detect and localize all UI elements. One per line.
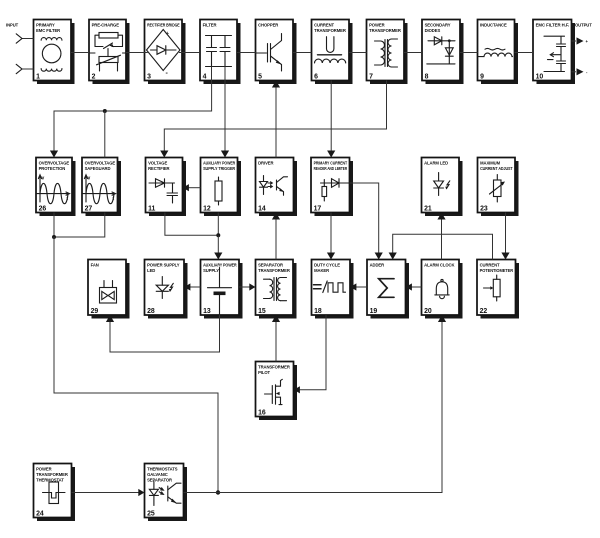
block 1: primary EMC filter xyxy=(34,20,75,85)
svg-text:OVERVOLTAGE: OVERVOLTAGE xyxy=(85,161,116,166)
junction dot at (54,237) xyxy=(52,235,56,239)
arrow into 19 top (right) xyxy=(389,253,397,260)
svg-text:PRIMARY CURRENT: PRIMARY CURRENT xyxy=(314,161,348,166)
svg-text:EMC FILTER: EMC FILTER xyxy=(36,28,60,33)
svg-text:TRANSFORMER: TRANSFORMER xyxy=(314,28,346,33)
block 3: rectifier bridge xyxy=(145,20,186,85)
svg-text:16: 16 xyxy=(258,409,266,416)
arrow into 20 bottom xyxy=(438,315,446,322)
svg-text:1: 1 xyxy=(36,73,40,80)
wire 4 to 12 (down) xyxy=(224,81,226,152)
arrow into 11 top xyxy=(160,151,168,158)
svg-text:12: 12 xyxy=(203,205,211,212)
wire junction into 13 top xyxy=(217,235,219,253)
svg-text:20: 20 xyxy=(424,308,432,315)
block 7: power transformer xyxy=(367,20,408,85)
block 13: auxiliary power supply xyxy=(201,260,243,319)
svg-text:TRANSFORMER: TRANSFORMER xyxy=(36,472,68,477)
svg-text:CHOPPER: CHOPPER xyxy=(258,23,278,28)
wire 24 to 25 (right) xyxy=(72,492,140,494)
arrow into 15 left side xyxy=(249,283,255,290)
svg-text:PILOT: PILOT xyxy=(258,370,270,375)
wire 14 to 5 (up) xyxy=(275,87,277,158)
svg-text:CURRENT ADJUST: CURRENT ADJUST xyxy=(480,166,513,171)
svg-text:26: 26 xyxy=(39,205,47,212)
svg-text:SUPPLY TRIGGER: SUPPLY TRIGGER xyxy=(203,166,235,171)
wire 20 top to 21 bottom xyxy=(441,219,443,260)
svg-text:24: 24 xyxy=(36,510,44,517)
svg-text:READER AND LIMITER: READER AND LIMITER xyxy=(314,166,348,171)
svg-text:7: 7 xyxy=(369,73,373,80)
wire 27 bottom down-left xyxy=(54,213,105,238)
arrow into 11 right side xyxy=(183,184,189,191)
block 11: voltage rectifier xyxy=(146,158,187,217)
svg-text:ALARM CLOCK: ALARM CLOCK xyxy=(424,263,454,268)
svg-text:11: 11 xyxy=(148,205,155,212)
block 24: power transformer thermostat xyxy=(34,464,76,522)
arrow into 28 right side xyxy=(184,283,190,290)
wire 12 to 11 (left) xyxy=(188,187,201,189)
block 26: overvoltage protection xyxy=(36,158,76,217)
block 6: current transformer xyxy=(312,20,353,85)
arrow into 22 top xyxy=(501,253,509,260)
block 25: thermostats galvanic separator xyxy=(145,464,188,522)
arrow into 19 top (left) xyxy=(375,253,383,260)
wire 18 bottom to 16 (down, left) xyxy=(299,315,326,390)
svg-text:TRANSFORMER: TRANSFORMER xyxy=(369,28,401,33)
wire 17 bottom to 18 top xyxy=(330,213,332,254)
block 18: duty cycle maker xyxy=(312,260,354,319)
svg-text:RECTIFIER BRIDGE: RECTIFIER BRIDGE xyxy=(147,23,180,28)
svg-text:2: 2 xyxy=(92,73,96,80)
wire 15 top to 14 bottom xyxy=(275,219,277,260)
svg-text:6: 6 xyxy=(314,73,318,80)
svg-text:ADDER: ADDER xyxy=(370,263,385,268)
svg-text:13: 13 xyxy=(203,308,211,315)
svg-text:5: 5 xyxy=(258,73,262,80)
block 14: driver xyxy=(256,158,298,217)
junction dot at (105,111) xyxy=(103,109,107,113)
arrow into 5 bottom xyxy=(272,81,280,88)
svg-text:CURRENT: CURRENT xyxy=(480,263,500,268)
arrow into 17 top xyxy=(327,151,335,158)
svg-text:SAFEGUARD: SAFEGUARD xyxy=(85,166,111,171)
svg-text:OUTPUT: OUTPUT xyxy=(575,23,592,28)
input terminal + line (lower) xyxy=(16,64,33,73)
svg-text:THERMOSTATS: THERMOSTATS xyxy=(147,467,178,472)
block 17: primary current reader and limiter xyxy=(311,158,353,217)
svg-text:FAN: FAN xyxy=(91,263,99,268)
svg-text:INPUT: INPUT xyxy=(6,23,19,28)
arrow into 18 right side xyxy=(350,283,356,290)
svg-text:EMC FILTER H.F.: EMC FILTER H.F. xyxy=(536,23,570,28)
svg-text:15: 15 xyxy=(258,308,266,315)
svg-text:POWER: POWER xyxy=(36,467,51,472)
block 22: current potentiometer xyxy=(477,260,519,319)
wire 20 to 19 (left) xyxy=(411,286,422,288)
wire bus 6-7 xyxy=(349,52,367,54)
svg-text:INDUCTANCE: INDUCTANCE xyxy=(480,23,507,28)
svg-text:SEPARATOR: SEPARATOR xyxy=(147,477,172,482)
wire bus 7-8 xyxy=(404,52,422,54)
svg-text:+: + xyxy=(166,32,170,38)
svg-text:27: 27 xyxy=(85,205,93,212)
wire 23 bottom to 22 top xyxy=(505,213,507,254)
wire 25 to 20 (right, up) xyxy=(184,322,443,493)
svg-text:AUXILIARY POWER: AUXILIARY POWER xyxy=(203,263,237,268)
block 20: alarm clock xyxy=(422,260,463,319)
svg-text:PRE-CHARGE: PRE-CHARGE xyxy=(92,23,120,28)
block 15: separator transformer xyxy=(256,260,297,319)
svg-text:21: 21 xyxy=(424,205,432,212)
svg-text:AUXILIARY POWER: AUXILIARY POWER xyxy=(203,161,235,166)
svg-text:25: 25 xyxy=(147,510,155,517)
svg-text:TRANSFORMER: TRANSFORMER xyxy=(258,268,290,273)
svg-text:RECTIFIER: RECTIFIER xyxy=(148,166,169,171)
arrow into 12 top xyxy=(221,151,229,158)
svg-text:POTENTIOMETER: POTENTIOMETER xyxy=(480,268,514,273)
wire junction to 27 top xyxy=(104,111,106,158)
block 12: auxiliary power supply trigger xyxy=(201,158,242,217)
svg-text:ALARM LED: ALARM LED xyxy=(424,161,448,166)
block 8: secondary diodes xyxy=(422,20,464,85)
wire 6 to 17 (down) xyxy=(330,81,332,152)
svg-text:SEPARATOR: SEPARATOR xyxy=(258,263,283,268)
svg-text:19: 19 xyxy=(370,308,378,315)
svg-text:TRANSFORMER: TRANSFORMER xyxy=(258,365,290,370)
wire bus 9-10 xyxy=(515,52,534,54)
block 29: fan xyxy=(88,260,130,319)
arrow into 21 bottom xyxy=(437,213,445,220)
svg-text:PROTECTION: PROTECTION xyxy=(39,166,66,171)
svg-text:SUPPLY: SUPPLY xyxy=(203,268,219,273)
svg-text:8: 8 xyxy=(425,73,429,80)
wire bus 1-2 xyxy=(71,52,89,54)
block 10: EMC filter H.F. xyxy=(533,20,575,85)
svg-text:14: 14 xyxy=(258,205,266,212)
svg-text:LED: LED xyxy=(147,268,155,273)
output - terminal xyxy=(572,68,589,75)
svg-text:9: 9 xyxy=(480,73,484,80)
wire 4 to 26/27 (down, left, down) xyxy=(54,81,212,152)
svg-text:MAXIMUM: MAXIMUM xyxy=(480,161,501,166)
svg-text:17: 17 xyxy=(314,205,322,212)
block 28: power supply LED xyxy=(145,260,188,319)
arrow into 19 right side xyxy=(406,283,412,290)
junction dot at (218,492.5) xyxy=(216,490,220,494)
svg-text:10: 10 xyxy=(536,73,544,80)
arrow into 25 left side xyxy=(138,489,144,496)
svg-text:DRIVER: DRIVER xyxy=(258,161,273,166)
wire bus 8-9 xyxy=(460,52,478,54)
block 9: inductance xyxy=(478,20,519,85)
block 21: alarm LED xyxy=(422,158,463,217)
svg-text:3: 3 xyxy=(147,73,151,80)
output + terminal xyxy=(572,37,589,44)
wire bus 4-5 xyxy=(237,52,256,54)
wire 13 to 15 (right) xyxy=(239,286,250,288)
block 4: filter xyxy=(200,20,241,85)
junction dot at (218.3,235.3) xyxy=(216,233,220,237)
wire 22 top to 19 (up, left, down) xyxy=(393,234,493,259)
block 23: maximum current adjust xyxy=(478,158,519,217)
arrow into 18 top xyxy=(327,253,335,260)
wire 16 top to 15 bottom xyxy=(275,322,277,362)
svg-text:FILTER: FILTER xyxy=(203,23,217,28)
svg-text:CURRENT: CURRENT xyxy=(314,23,334,28)
arrow into 13 top xyxy=(214,253,222,260)
wire 26 bottom down xyxy=(53,213,55,238)
svg-text:PRIMARY: PRIMARY xyxy=(36,23,55,28)
svg-text:v: v xyxy=(42,176,45,182)
svg-text:DUTY CYCLE: DUTY CYCLE xyxy=(314,263,340,268)
wire bus 5-6 xyxy=(293,52,312,54)
svg-text:v: v xyxy=(88,176,91,182)
svg-text:POWER: POWER xyxy=(369,23,384,28)
svg-text:23: 23 xyxy=(480,205,488,212)
svg-text:SECONDARY: SECONDARY xyxy=(425,23,451,28)
block 5: chopper xyxy=(256,20,297,85)
svg-text:OVERVOLTAGE: OVERVOLTAGE xyxy=(39,161,70,166)
svg-text:22: 22 xyxy=(480,308,488,315)
svg-text:18: 18 xyxy=(314,308,322,315)
svg-text:28: 28 xyxy=(147,308,155,315)
arrow into 14 bottom xyxy=(272,213,280,220)
svg-text:VOLTAGE: VOLTAGE xyxy=(148,161,167,166)
svg-text:POWER SUPPLY: POWER SUPPLY xyxy=(147,263,180,268)
block 16: transformer pilot xyxy=(256,362,298,421)
block 19: adder xyxy=(367,260,409,319)
wire 13 to 28 (left) xyxy=(189,286,200,288)
arrow into 29 bottom xyxy=(106,315,114,322)
wire 7 to 11 (down, left, down) xyxy=(164,81,386,152)
wire 26/27 to bottom rail (down, right, down) xyxy=(54,237,218,493)
wire 19 to 18 (left) xyxy=(355,286,367,288)
svg-text:4: 4 xyxy=(203,73,207,80)
wire bus 2-3 xyxy=(126,52,145,54)
arrow into 15 bottom xyxy=(272,315,280,322)
arrow into 16 right side xyxy=(294,386,300,393)
input terminal + line (upper) xyxy=(16,34,33,43)
block 27: overvoltage safeguard xyxy=(82,158,121,217)
wire 17 to 19 (right, down) xyxy=(350,183,379,253)
wire bus 3-4 xyxy=(182,52,200,54)
svg-text:29: 29 xyxy=(91,308,99,315)
svg-text:DIODES: DIODES xyxy=(425,28,441,33)
svg-text:GALVANIC: GALVANIC xyxy=(147,472,168,477)
svg-text:MAKER: MAKER xyxy=(314,268,329,273)
wire 11 bottom to junction xyxy=(165,213,218,236)
wire 12 bottom to junction xyxy=(217,213,219,236)
wire 13 bottom to 29 (down, left, up) xyxy=(110,315,220,352)
arrow into 26 top xyxy=(50,151,58,158)
block 2: pre-charge xyxy=(89,20,130,85)
